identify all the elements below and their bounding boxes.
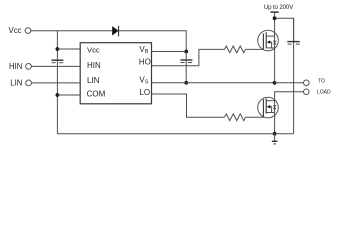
wire Vcc pin stub xyxy=(57,48,80,50)
wire HO pin to gate resistor R1 xyxy=(152,49,225,65)
pin label Vcc xyxy=(87,45,100,54)
wire LIN to IC xyxy=(32,82,81,84)
pin label COM xyxy=(87,90,106,99)
wire Vcc bypass drop xyxy=(56,31,58,134)
pin label VS xyxy=(139,76,148,86)
ground symbol xyxy=(272,134,278,144)
node COM junction dot xyxy=(56,93,60,97)
wire bottom rail xyxy=(57,133,293,135)
node LIN terminal label xyxy=(10,79,22,88)
resistor R1 high-side gate xyxy=(225,46,246,53)
diode D1 bootstrap xyxy=(113,26,119,37)
node HIN terminal circle xyxy=(26,64,32,70)
svg-text:LO: LO xyxy=(139,88,150,97)
node Vcc terminal label xyxy=(9,26,22,35)
node LOAD terminal circle xyxy=(304,89,310,95)
wire Vcc to diode anode xyxy=(31,30,113,32)
capacitor C2 bootstrap VB-VS xyxy=(180,52,192,83)
wire rail branch to bus capacitor xyxy=(275,18,294,41)
transistor Q1 high-side MOSFET xyxy=(258,30,279,51)
node LIN terminal circle xyxy=(26,80,32,86)
node switch node dot xyxy=(273,81,277,85)
svg-text:VB: VB xyxy=(139,45,148,55)
node VS junction dot xyxy=(184,81,188,85)
node TO terminal circle xyxy=(304,80,310,86)
node Vcc pin junction dot xyxy=(56,47,60,51)
node LOAD terminal label xyxy=(317,89,331,95)
node Vcc terminal circle xyxy=(25,28,31,34)
wire rail stem xyxy=(274,12,276,18)
power rail bar xyxy=(271,11,279,13)
wire VS pin to switch node xyxy=(152,82,275,84)
svg-text:COM: COM xyxy=(87,90,106,99)
wire LO pin to gate resistor R2 xyxy=(152,94,225,117)
svg-text:LIN: LIN xyxy=(87,76,100,85)
wire R1 to Q1 gate xyxy=(246,48,264,50)
node VB junction dot xyxy=(184,50,188,54)
wire Q2 source to ground rail xyxy=(274,113,276,134)
power rail Up to 200V label xyxy=(264,4,294,11)
node HIN terminal label xyxy=(9,62,22,71)
pin label LO xyxy=(139,88,150,97)
wire R2 to Q2 gate xyxy=(246,116,264,118)
transistor Q2 low-side MOSFET xyxy=(258,97,279,118)
wire Q2 drain to LOAD row xyxy=(275,92,304,98)
wire COM pin stub xyxy=(57,94,80,96)
pin label HO xyxy=(139,58,151,67)
pin label HIN xyxy=(87,61,101,70)
svg-text:HIN: HIN xyxy=(87,61,101,70)
wire diode cathode to VB corner xyxy=(119,31,187,52)
svg-text:HO: HO xyxy=(139,58,151,67)
pin label VB xyxy=(139,45,148,55)
svg-text:Vcc: Vcc xyxy=(9,26,22,35)
capacitor C1 Vcc bypass xyxy=(51,60,63,63)
node TO terminal label xyxy=(318,79,325,85)
svg-text:LOAD: LOAD xyxy=(317,89,331,95)
svg-text:Up to 200V: Up to 200V xyxy=(264,4,294,11)
svg-text:TO: TO xyxy=(318,79,325,85)
svg-text:HIN: HIN xyxy=(9,62,22,71)
wire Q2 drain inside xyxy=(274,97,276,112)
op-amp U1 gate driver IC box xyxy=(80,43,151,104)
svg-text:LIN: LIN xyxy=(10,79,22,88)
svg-text:Vcc: Vcc xyxy=(87,45,100,54)
svg-text:VS: VS xyxy=(139,76,148,86)
wire HIN to IC xyxy=(31,65,80,67)
node rail junction dot xyxy=(273,16,277,20)
pin label LIN xyxy=(87,76,100,85)
wire Q1 drain to rail xyxy=(274,18,276,36)
capacitor C3 bus xyxy=(287,18,300,133)
resistor R2 low-side gate xyxy=(225,114,246,121)
node ground rail dot xyxy=(273,132,277,136)
wire Q1 channel to switch node xyxy=(274,36,276,83)
wire VB pin to bootstrap node xyxy=(152,51,187,53)
wire switch node to TO terminal xyxy=(275,82,304,84)
